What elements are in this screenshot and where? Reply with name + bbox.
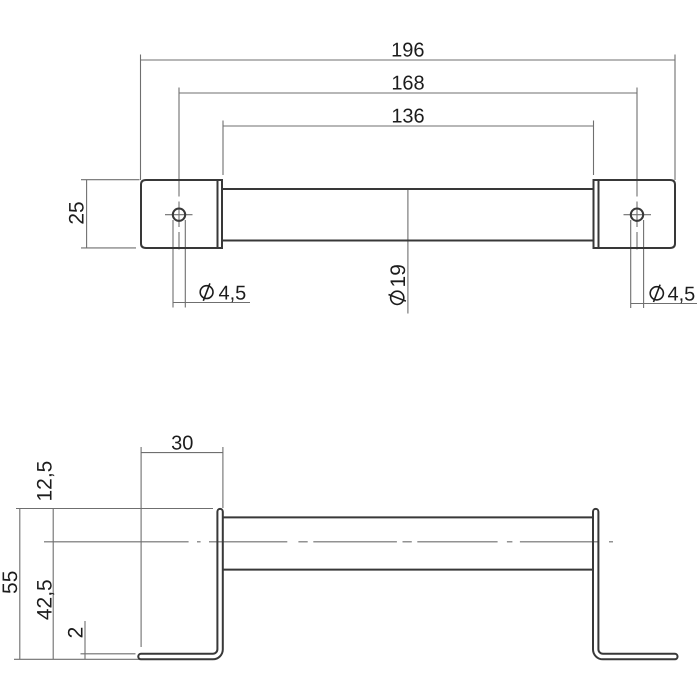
svg-text:2: 2 (65, 627, 88, 639)
diameter symbol 4,5 right (650, 285, 663, 302)
svg-text:168: 168 (391, 73, 424, 95)
leader line diameter 4,5 right (631, 303, 697, 305)
extension line 168 right (636, 88, 638, 250)
crosshair left hole (165, 214, 193, 216)
svg-text:4,5: 4,5 (219, 283, 247, 305)
extension line 25 top (81, 179, 140, 181)
right leg and foot side view (593, 509, 678, 659)
svg-text:42,5: 42,5 (34, 579, 57, 620)
svg-text:4,5: 4,5 (668, 284, 696, 306)
diameter symbol 4,5 left (200, 283, 213, 300)
svg-text:19: 19 (387, 264, 410, 287)
svg-text:25: 25 (66, 201, 89, 224)
extension line 136 left (222, 121, 224, 176)
leader line diameter 4,5 left (173, 302, 250, 304)
left leg and foot side view (138, 509, 223, 659)
extension line 196 right (674, 55, 676, 181)
dimension line 2 (84, 621, 86, 659)
extension lines diameter 4,5 right (631, 220, 644, 308)
dimension line 25 (86, 180, 88, 248)
extension lines diameter 4,5 left (173, 220, 185, 308)
dimension line 136 (223, 125, 594, 127)
left screw hole (173, 209, 185, 221)
extension line 25 bottom (81, 247, 136, 249)
diameter symbol 19 (389, 291, 406, 304)
extension line bottom of feet (14, 658, 139, 660)
svg-text:30: 30 (171, 432, 193, 454)
svg-text:196: 196 (391, 40, 424, 62)
right screw hole (631, 209, 643, 221)
svg-text:136: 136 (391, 106, 424, 128)
extension line top of legs (16, 508, 213, 510)
extension line 30 right (222, 447, 224, 508)
left block inner edge (217, 180, 219, 248)
handle bar top view (222, 189, 594, 241)
left mounting block (141, 180, 222, 248)
extension line 30 left (140, 447, 142, 647)
right mounting block (594, 180, 676, 248)
extension line top of foot (81, 653, 136, 655)
handle bar side view (223, 517, 593, 569)
dimension line 55 (19, 509, 21, 660)
dimension line 30 (141, 452, 223, 454)
extension line 196 left (140, 55, 142, 181)
center line diameter 19 (407, 189, 409, 314)
center line side view (44, 541, 613, 543)
extension line 168 left (178, 88, 180, 250)
dimension line 196 (141, 59, 676, 61)
crosshair right hole (624, 214, 652, 216)
svg-text:12,5: 12,5 (34, 461, 57, 502)
dimension line 168 (179, 92, 637, 94)
right block inner edge (598, 180, 600, 248)
dimension line 12,5 and 42,5 (52, 509, 54, 660)
extension line 136 right (593, 121, 595, 176)
svg-text:55: 55 (0, 571, 22, 594)
